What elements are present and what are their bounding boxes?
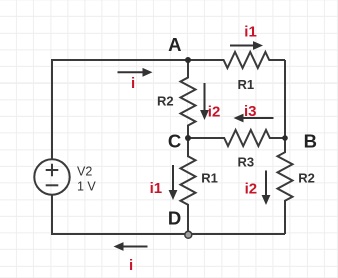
svg-text:R1: R1 bbox=[238, 77, 255, 92]
node C bbox=[185, 135, 191, 141]
svg-text:R2: R2 bbox=[157, 93, 174, 108]
current arrow i (top branch, pointing right) bbox=[118, 68, 153, 77]
resistor R3 (node C to node B) bbox=[188, 130, 285, 146]
node B bbox=[282, 135, 288, 141]
svg-text:D: D bbox=[168, 208, 181, 229]
svg-text:V2: V2 bbox=[77, 165, 92, 179]
resistor R2 (node A to node C) bbox=[181, 60, 196, 138]
svg-text:A: A bbox=[168, 34, 181, 55]
resistor R1 (node C to node D) bbox=[181, 138, 196, 234]
node A bbox=[185, 57, 191, 63]
svg-text:i1: i1 bbox=[244, 24, 257, 41]
wire: left rail from V2 top up to corner and across to node A bbox=[52, 60, 188, 159]
svg-text:R3: R3 bbox=[238, 154, 255, 169]
wire: right rail from top-right corner down to node B bbox=[284, 60, 286, 138]
svg-text:i2: i2 bbox=[208, 104, 221, 121]
svg-text:C: C bbox=[168, 131, 181, 152]
resistor R2 (node B to bottom-right corner) bbox=[278, 138, 293, 234]
svg-text:B: B bbox=[304, 131, 317, 152]
svg-text:R2: R2 bbox=[298, 170, 315, 185]
svg-text:i1: i1 bbox=[150, 180, 163, 197]
svg-text:i2: i2 bbox=[245, 180, 258, 197]
current arrow i (bottom return, pointing left) bbox=[114, 242, 148, 251]
svg-text:i: i bbox=[131, 75, 135, 92]
wire: left rail from V2 bottom down to bottom rail and right to node D bbox=[52, 196, 188, 235]
resistor R1 (top, node A to right corner) bbox=[188, 52, 285, 68]
svg-text:i3: i3 bbox=[244, 103, 257, 120]
current arrow i1 (through top R1, pointing right) bbox=[230, 41, 263, 50]
svg-text:i: i bbox=[129, 257, 133, 274]
current arrow i3 (through R3, pointing left) bbox=[234, 114, 274, 123]
current arrow i2 (through right R2, pointing down) bbox=[262, 171, 271, 206]
svg-text:1 V: 1 V bbox=[77, 180, 96, 194]
svg-text:R1: R1 bbox=[201, 171, 218, 186]
current arrow i2 (through R2 left, pointing down) bbox=[200, 83, 209, 120]
wire: bottom rail from node D to bottom-right corner bbox=[188, 233, 285, 235]
current arrow i1 (through lower R1, pointing down) bbox=[169, 165, 178, 200]
voltage source V2 bbox=[34, 159, 69, 194]
node D (port junction) bbox=[185, 231, 192, 238]
